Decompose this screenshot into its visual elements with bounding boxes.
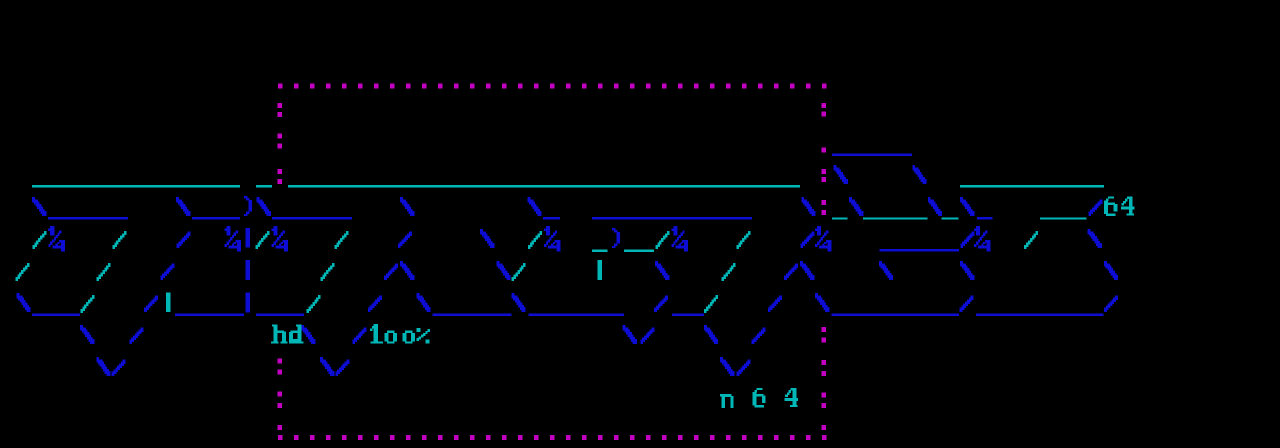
blue underscore r9 x671.9: [672, 314, 704, 316]
cyan underscore r6 x832: [832, 217, 848, 219]
cyan underscore r7 x624.1: [624, 250, 654, 252]
cyan underscore r6 x863: [863, 217, 928, 219]
teal slash stroke at 703.7,288: [716, 295, 719, 299]
blue underscore r9 x432.5: [433, 314, 512, 316]
backslash stroke at 815,288: [815, 293, 818, 298]
backslash stroke at 32,192: [32, 197, 35, 202]
blue underscore r6 x543: [543, 217, 560, 220]
backslash stroke at 655,256: [655, 261, 658, 266]
quarter-fraction glyph at 815: [815, 228, 817, 231]
backslash stroke at 527.3,192: [528, 197, 531, 202]
quarter-fraction glyph at 271.5: [272, 228, 274, 231]
teal bar col10 r9: [166, 292, 170, 312]
blue slash stroke at 767.5,288: [779, 295, 782, 300]
teal slash stroke at 511.3,256: [523, 263, 526, 267]
text hd: [272, 324, 278, 326]
backslash stroke at 96.2,352: [96, 357, 99, 362]
quarter-fraction glyph at 543.8: [544, 228, 546, 231]
text 1oo%: [372, 326, 374, 329]
blue slash stroke at 176.3,224: [188, 231, 191, 236]
blue underscore r6 x192: [192, 217, 240, 220]
blue slash stroke at 143.8,288: [155, 295, 158, 300]
teal slash stroke at 15,256: [27, 263, 30, 267]
backslash stroke at 960,192: [960, 197, 963, 202]
blue slash stroke at 397.5,224: [409, 231, 412, 236]
blue slash stroke at 959.2,288: [971, 295, 974, 300]
blue slash stroke at 383.8,256: [395, 263, 398, 268]
cyan overline x960: [960, 185, 1104, 187]
backslash stroke at 320,352: [320, 357, 323, 362]
blue slash stroke at 736.3,352: [748, 359, 751, 364]
blue underscore r9 x32: [32, 314, 80, 316]
teal slash stroke at 80,288: [92, 295, 95, 299]
blue underscore r6 x48: [48, 217, 128, 220]
cyan underscore r6 x941.7: [942, 217, 959, 219]
teal slash stroke at 1023.8,224: [1036, 231, 1039, 235]
blue slash stroke at 640,320: [651, 327, 654, 332]
teal bar col37 r8: [598, 260, 603, 280]
right-paren row7: [612, 228, 616, 230]
backslash stroke at 400,256: [400, 261, 403, 266]
backslash stroke at 800,256: [800, 261, 803, 266]
backslash stroke at 416.3,288: [417, 293, 420, 298]
blue slash stroke at 335,352: [346, 359, 349, 364]
text n 6 4: [720, 394, 724, 396]
blue slash stroke at 111.3,352: [123, 359, 126, 364]
teal slash stroke at 721.3,256: [733, 263, 736, 267]
quarter-fraction glyph at 224.5: [225, 228, 227, 231]
dotted frame right border: [822, 103, 827, 108]
backslash stroke at 927.7,192: [928, 197, 931, 202]
backslash stroke at 511.3,288: [512, 293, 515, 298]
teal slash stroke at 334,224: [346, 231, 349, 235]
blue underscore r9 x175: [175, 314, 244, 316]
backslash stroke at 1103.8,256: [1104, 261, 1107, 266]
backslash stroke at 16.3,288: [17, 293, 20, 298]
blue slash stroke at 352,320: [363, 327, 366, 332]
backslash stroke at 1087.5,224: [1088, 229, 1091, 234]
teal slash stroke at 32,224: [44, 231, 47, 235]
blue slash stroke at 129,320: [140, 327, 143, 332]
backslash stroke at 848.9,192: [849, 197, 852, 202]
backslash stroke at 622.5,320: [623, 325, 626, 330]
dotted frame bottom border: [278, 435, 283, 440]
teal slash stroke at 96.3,256: [108, 263, 111, 267]
backslash stroke at 400,192: [400, 197, 403, 202]
backslash stroke at 720,352: [720, 357, 723, 362]
teal slash stroke at 112,224: [124, 231, 127, 235]
blue underscore r9 x528.5: [529, 314, 624, 316]
quarter-fraction glyph at 974: [974, 228, 976, 231]
backslash stroke at 703.8,320: [704, 325, 707, 330]
blue underscore r7 x879: [879, 249, 959, 251]
teal slash stroke at 655,224: [667, 231, 670, 235]
text 64: [1108, 196, 1114, 198]
backslash stroke at 480,224: [480, 229, 483, 234]
backslash stroke at 833.4,160: [834, 165, 837, 170]
blue underscore r6 x592: [592, 217, 752, 220]
teal slash stroke at 320,256: [332, 263, 335, 267]
blue slash stroke at 800,224: [811, 231, 814, 236]
backslash stroke at 80,320: [80, 325, 83, 330]
blue underscore r9 x976: [976, 314, 1104, 316]
blue slash stroke at 367.5,288: [379, 295, 382, 300]
cyan overline x256: [256, 185, 272, 187]
teal slash stroke at 306.3,288: [318, 295, 321, 299]
blue bar col15 r8: [246, 260, 251, 280]
cyan underscore r7 x592.2: [592, 250, 608, 252]
teal slash stroke at 527.5,224: [539, 231, 542, 235]
quarter-fraction glyph at 48.2: [48, 228, 50, 231]
blue bar col15 r9: [246, 292, 251, 312]
backslash stroke at 960,256: [960, 261, 963, 266]
backslash stroke at 801.1,192: [801, 197, 804, 202]
cyan overline x32: [32, 185, 240, 187]
backslash stroke at 256.5,192: [257, 197, 260, 202]
cyan underscore r6 x1040: [1040, 217, 1087, 219]
blue underscore r9 x831.6: [832, 314, 960, 316]
backslash stroke at 496.3,256: [497, 261, 500, 266]
blue slash stroke at 1088,192: [1099, 199, 1102, 204]
teal slash stroke at 736,224: [748, 231, 751, 235]
backslash stroke at 912.2,160: [912, 165, 915, 170]
right-paren row6: [244, 196, 248, 198]
quarter-fraction glyph at 671.3: [671, 228, 673, 231]
blue slash stroke at 751.3,320: [763, 327, 766, 332]
blue slash stroke at 653.8,288: [665, 295, 668, 300]
backslash stroke at 176,192: [176, 197, 179, 202]
blue slash stroke at 960,224: [971, 231, 974, 236]
blue slash stroke at 1103.6,288: [1115, 295, 1118, 300]
blue slash stroke at 160,256: [171, 263, 174, 268]
backslash stroke at 301,320: [301, 325, 304, 330]
dotted frame left border: [278, 103, 283, 108]
cyan overline x288: [288, 185, 800, 187]
blue overline right-letter: [832, 153, 912, 155]
blue underscore r6 x272: [272, 217, 352, 220]
blue underscore r6 x976.9: [977, 217, 992, 220]
backslash stroke at 878.8,256: [879, 261, 882, 266]
blue bar col15 r7: [246, 228, 251, 248]
blue underscore r9 x256: [256, 314, 304, 316]
teal slash stroke at 255,224: [267, 231, 270, 235]
dotted frame top border: [278, 84, 283, 89]
blue slash stroke at 783.8,256: [795, 263, 798, 268]
